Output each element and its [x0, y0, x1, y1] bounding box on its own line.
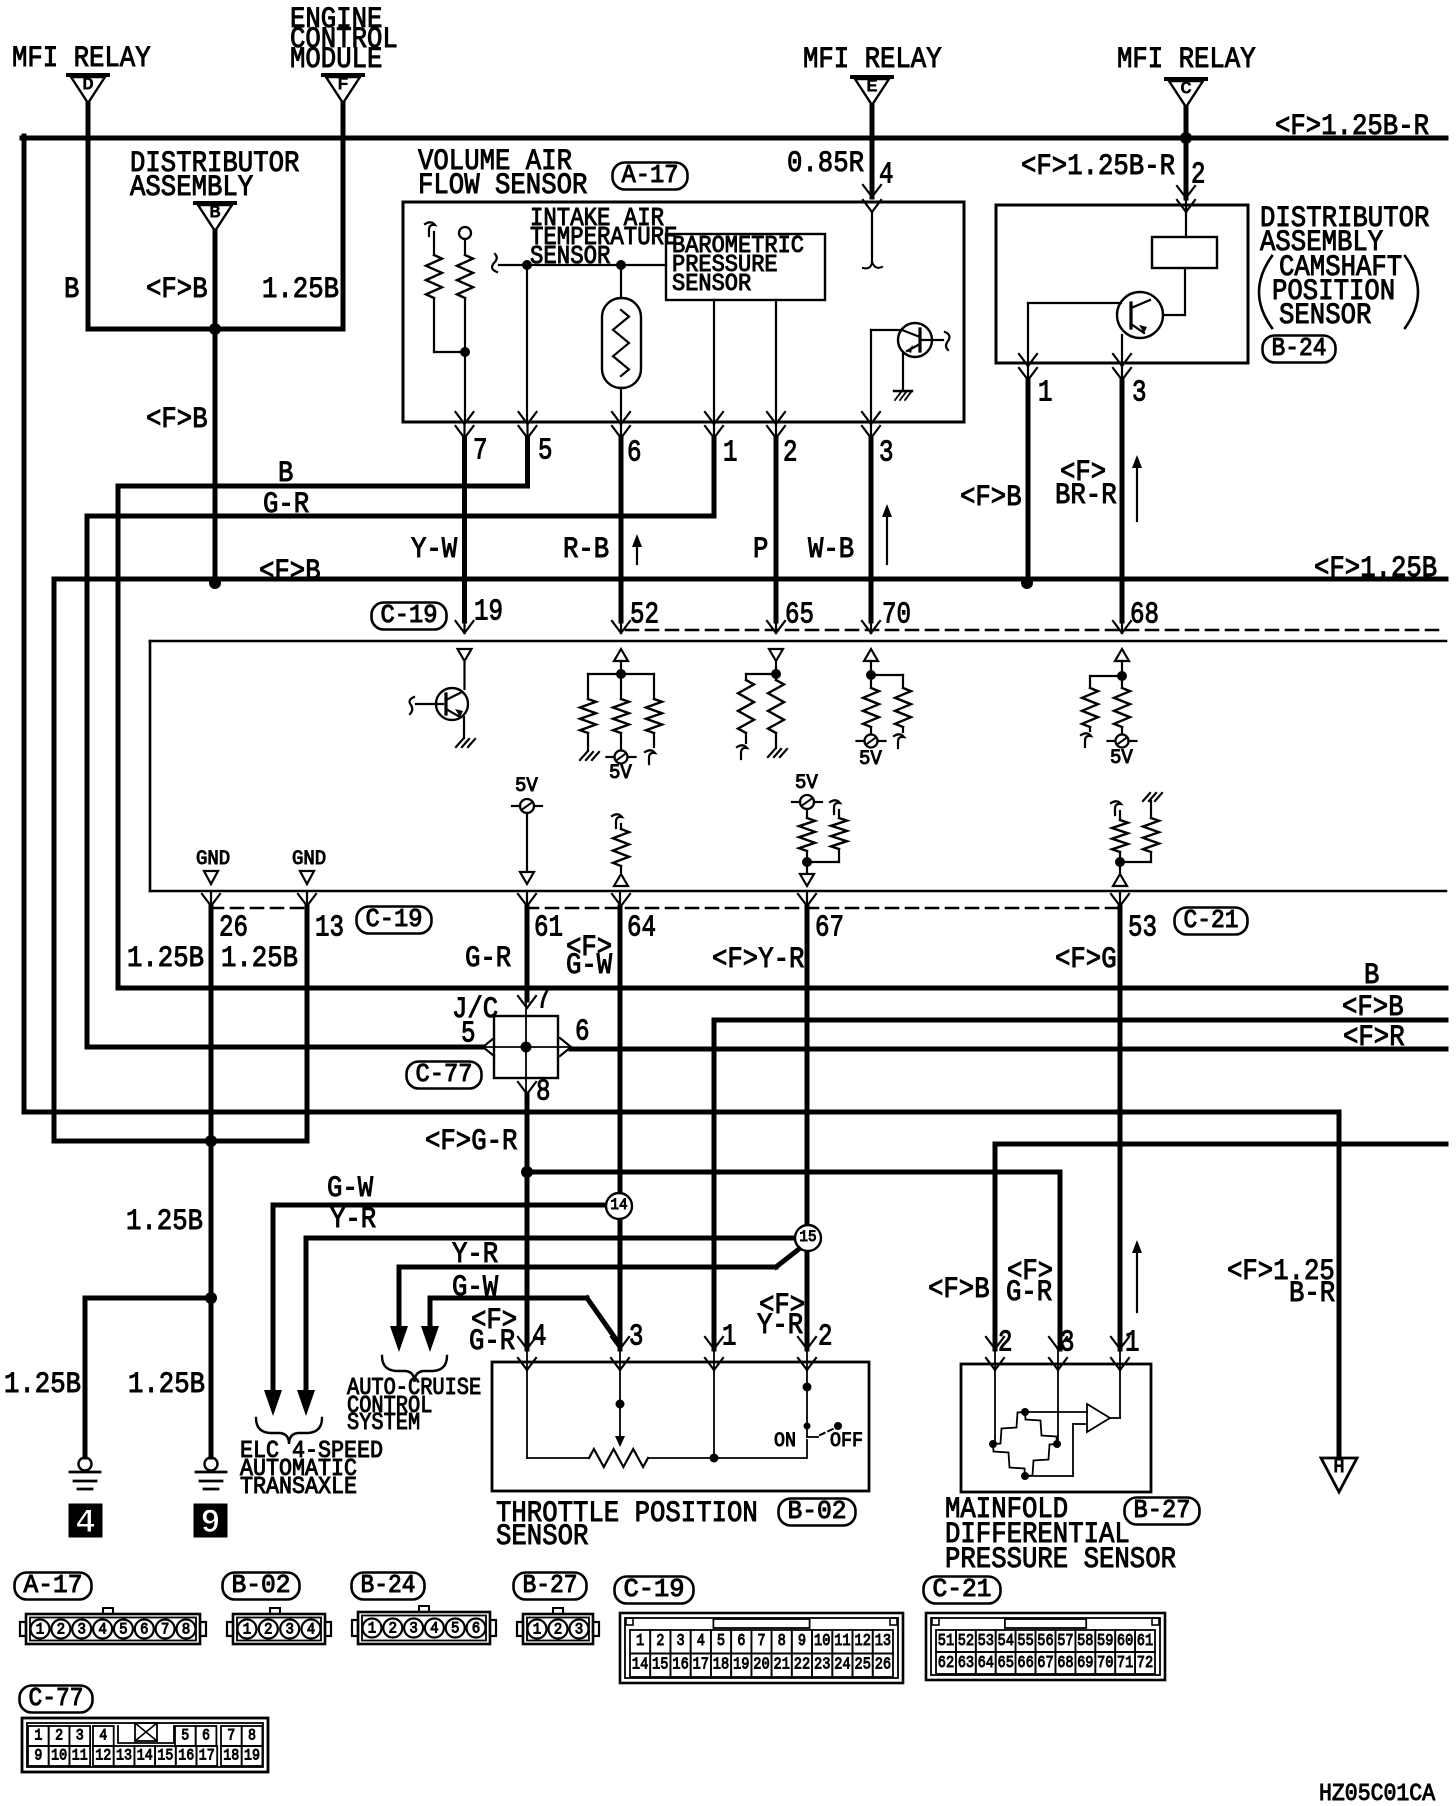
svg-text:3: 3 [77, 1621, 86, 1639]
svg-text:8: 8 [778, 1632, 786, 1651]
svg-text:C-19: C-19 [381, 600, 438, 630]
svg-text:G-R: G-R [263, 488, 309, 522]
svg-text:GND: GND [196, 848, 230, 871]
svg-text:Y-R: Y-R [330, 1203, 376, 1237]
svg-text:1: 1 [636, 1632, 644, 1651]
svg-text:B: B [210, 204, 221, 223]
svg-text:6: 6 [737, 1632, 745, 1651]
svg-text:5: 5 [538, 434, 553, 469]
svg-text:61: 61 [534, 911, 563, 946]
svg-text:C-21: C-21 [1184, 905, 1239, 935]
svg-text:1.25B: 1.25B [126, 1205, 203, 1239]
svg-text:8: 8 [248, 1727, 256, 1745]
svg-text:F: F [338, 76, 349, 95]
svg-text:MODULE: MODULE [290, 43, 382, 77]
svg-text:13: 13 [116, 1747, 132, 1765]
svg-text:9: 9 [201, 1505, 221, 1543]
svg-text:13: 13 [315, 911, 344, 946]
svg-text:2: 2 [554, 1621, 563, 1639]
svg-text:<F>B: <F>B [146, 273, 208, 307]
svg-text:<F>R: <F>R [1343, 1021, 1405, 1055]
svg-text:P: P [753, 533, 768, 567]
svg-text:C-77: C-77 [29, 1683, 84, 1713]
svg-text:<F>G: <F>G [1055, 943, 1117, 977]
svg-text:1: 1 [368, 1620, 377, 1638]
svg-text:1.25B: 1.25B [128, 1368, 205, 1402]
svg-text:60: 60 [1117, 1632, 1133, 1651]
svg-text:SENSOR: SENSOR [496, 1520, 588, 1554]
svg-text:16: 16 [672, 1656, 688, 1675]
svg-text:1: 1 [1038, 376, 1053, 411]
svg-text:64: 64 [978, 1654, 994, 1673]
svg-text:11: 11 [834, 1632, 850, 1651]
svg-text:C-77: C-77 [416, 1059, 473, 1089]
svg-text:G-R: G-R [1006, 1276, 1052, 1310]
svg-text:51: 51 [938, 1632, 954, 1651]
svg-text:2: 2 [264, 1621, 273, 1639]
svg-text:SENSOR: SENSOR [672, 271, 751, 298]
svg-text:G-W: G-W [566, 949, 612, 983]
svg-text:5: 5 [461, 1017, 476, 1052]
svg-text:Y-R: Y-R [452, 1238, 498, 1272]
svg-text:2: 2 [998, 1326, 1013, 1361]
svg-text:10: 10 [814, 1632, 830, 1651]
svg-text:3: 3 [409, 1620, 418, 1638]
svg-text:19: 19 [733, 1656, 749, 1675]
svg-text:<F>B: <F>B [960, 481, 1022, 515]
svg-text:62: 62 [938, 1654, 954, 1673]
svg-text:4: 4 [697, 1632, 705, 1651]
svg-text:Y-W: Y-W [411, 533, 457, 567]
svg-text:<F>B: <F>B [1342, 991, 1404, 1025]
svg-text:6: 6 [627, 436, 642, 471]
svg-text:3: 3 [677, 1632, 685, 1651]
svg-text:<F>1.25B-R: <F>1.25B-R [1275, 110, 1429, 144]
svg-text:9: 9 [798, 1632, 806, 1651]
svg-text:5V: 5V [795, 772, 818, 795]
svg-text:8: 8 [536, 1075, 551, 1110]
svg-text:7: 7 [227, 1727, 235, 1745]
svg-text:67: 67 [815, 911, 844, 946]
svg-text:7: 7 [757, 1632, 765, 1651]
svg-text:4: 4 [98, 1621, 107, 1639]
svg-text:2: 2 [55, 1727, 63, 1745]
svg-text:14: 14 [632, 1656, 648, 1675]
svg-text:MFI RELAY: MFI RELAY [803, 43, 942, 77]
svg-text:3: 3 [879, 436, 894, 471]
svg-text:70: 70 [1097, 1654, 1113, 1673]
svg-text:1: 1 [533, 1621, 542, 1639]
svg-text:B-27: B-27 [1134, 1495, 1191, 1525]
svg-text:2: 2 [57, 1621, 66, 1639]
svg-text:PRESSURE SENSOR: PRESSURE SENSOR [945, 1543, 1176, 1577]
svg-text:HZ05C01CA: HZ05C01CA [1319, 1781, 1436, 1806]
svg-text:C: C [1181, 80, 1192, 99]
svg-text:1.25B: 1.25B [4, 1368, 81, 1402]
svg-text:3: 3 [1132, 376, 1147, 411]
svg-text:23: 23 [814, 1656, 830, 1675]
svg-text:4: 4 [430, 1620, 439, 1638]
svg-text:21: 21 [774, 1656, 790, 1675]
svg-text:D: D [83, 76, 94, 95]
svg-text:3: 3 [629, 1320, 644, 1355]
svg-text:TRANSAXLE: TRANSAXLE [240, 1474, 357, 1501]
svg-text:63: 63 [958, 1654, 974, 1673]
svg-text:MFI RELAY: MFI RELAY [12, 42, 151, 76]
svg-text:2: 2 [783, 436, 798, 471]
svg-text:4: 4 [879, 158, 894, 193]
svg-text:53: 53 [978, 1632, 994, 1651]
svg-text:C-19: C-19 [366, 904, 423, 934]
svg-text:5V: 5V [609, 762, 632, 785]
svg-text:2: 2 [1191, 158, 1206, 193]
svg-text:4: 4 [532, 1320, 547, 1355]
svg-text:6: 6 [575, 1015, 590, 1050]
svg-text:56: 56 [1037, 1632, 1053, 1651]
svg-text:FLOW SENSOR: FLOW SENSOR [418, 169, 587, 203]
svg-text:1: 1 [36, 1621, 45, 1639]
svg-text:68: 68 [1130, 598, 1159, 633]
svg-text:5V: 5V [1110, 747, 1133, 770]
svg-text:52: 52 [630, 598, 659, 633]
svg-text:<F>1.25B-R: <F>1.25B-R [1021, 150, 1175, 184]
svg-text:B-24: B-24 [1272, 333, 1327, 363]
svg-text:19: 19 [474, 595, 503, 630]
svg-text:57: 57 [1057, 1632, 1073, 1651]
svg-text:12: 12 [855, 1632, 871, 1651]
svg-text:R-B: R-B [563, 533, 609, 567]
svg-text:2: 2 [656, 1632, 664, 1651]
svg-text:1.25B: 1.25B [221, 942, 298, 976]
svg-text:19: 19 [244, 1747, 260, 1765]
svg-text:<F>B: <F>B [259, 555, 321, 589]
svg-text:69: 69 [1077, 1654, 1093, 1673]
svg-text:C-21: C-21 [933, 1574, 992, 1604]
svg-text:15: 15 [799, 1228, 816, 1246]
svg-text:9: 9 [34, 1747, 42, 1765]
svg-text:5: 5 [181, 1727, 189, 1745]
svg-text:B: B [64, 273, 79, 307]
svg-text:66: 66 [1017, 1654, 1033, 1673]
svg-text:11: 11 [72, 1747, 88, 1765]
svg-text:B-27: B-27 [523, 1570, 578, 1600]
svg-text:B-24: B-24 [361, 1570, 416, 1600]
svg-text:1.25B: 1.25B [127, 942, 204, 976]
svg-text:53: 53 [1128, 911, 1157, 946]
svg-text:<F>1.25B: <F>1.25B [1314, 552, 1437, 586]
svg-text:54: 54 [998, 1632, 1014, 1651]
svg-text:0.85R: 0.85R [787, 147, 864, 181]
svg-text:68: 68 [1057, 1654, 1073, 1673]
svg-text:7: 7 [536, 983, 551, 1018]
svg-text:5V: 5V [859, 748, 882, 771]
svg-text:5: 5 [717, 1632, 725, 1651]
svg-text:5: 5 [451, 1620, 460, 1638]
svg-text:70: 70 [882, 598, 911, 633]
svg-text:18: 18 [223, 1747, 239, 1765]
svg-text:6: 6 [472, 1620, 481, 1638]
svg-text:SYSTEM: SYSTEM [347, 1410, 420, 1437]
svg-text:10: 10 [51, 1747, 67, 1765]
svg-text:17: 17 [693, 1656, 709, 1675]
svg-text:3: 3 [1060, 1326, 1075, 1361]
svg-text:ON: ON [774, 1430, 796, 1453]
svg-text:20: 20 [753, 1656, 769, 1675]
svg-text:24: 24 [834, 1656, 850, 1675]
svg-text:Y-R: Y-R [757, 1309, 803, 1343]
svg-text:26: 26 [875, 1656, 891, 1675]
svg-text:1: 1 [34, 1727, 42, 1745]
svg-text:18: 18 [713, 1656, 729, 1675]
svg-text:5: 5 [119, 1621, 128, 1639]
svg-text:G-W: G-W [327, 1172, 373, 1206]
svg-text:2: 2 [389, 1620, 398, 1638]
svg-text:2: 2 [818, 1320, 833, 1355]
svg-text:4: 4 [307, 1621, 316, 1639]
svg-text:OFF: OFF [830, 1430, 863, 1453]
svg-text:8: 8 [182, 1621, 191, 1639]
svg-text:7: 7 [473, 434, 488, 469]
svg-text:B: B [278, 457, 293, 491]
svg-text:65: 65 [998, 1654, 1014, 1673]
svg-text:<F>G-R: <F>G-R [425, 1125, 517, 1159]
svg-text:26: 26 [219, 911, 248, 946]
svg-text:G-R: G-R [469, 1325, 515, 1359]
svg-text:4: 4 [99, 1727, 107, 1745]
svg-text:H: H [1334, 1458, 1345, 1478]
svg-text:<F>Y-R: <F>Y-R [712, 943, 804, 977]
svg-text:E: E [867, 78, 878, 97]
svg-text:4: 4 [76, 1505, 96, 1543]
svg-text:59: 59 [1097, 1632, 1113, 1651]
svg-text:MFI RELAY: MFI RELAY [1117, 43, 1256, 77]
svg-text:25: 25 [855, 1656, 871, 1675]
svg-text:67: 67 [1037, 1654, 1053, 1673]
svg-text:SENSOR: SENSOR [1279, 299, 1371, 333]
svg-text:B-02: B-02 [788, 1496, 847, 1526]
svg-text:14: 14 [610, 1196, 627, 1214]
svg-text:BR-R: BR-R [1055, 479, 1117, 513]
svg-text:14: 14 [137, 1747, 153, 1765]
svg-text:W-B: W-B [808, 533, 854, 567]
svg-text:61: 61 [1137, 1632, 1153, 1651]
svg-text:ASSEMBLY: ASSEMBLY [130, 171, 253, 205]
svg-text:G-W: G-W [452, 1271, 498, 1305]
svg-text:SENSOR: SENSOR [530, 241, 610, 271]
svg-text:15: 15 [652, 1656, 668, 1675]
svg-text:A-17: A-17 [622, 160, 679, 190]
svg-text:G-R: G-R [465, 942, 511, 976]
svg-text:1: 1 [243, 1621, 252, 1639]
svg-text:6: 6 [140, 1621, 149, 1639]
svg-text:B-02: B-02 [232, 1570, 291, 1600]
svg-text:7: 7 [161, 1621, 170, 1639]
svg-text:3: 3 [575, 1621, 584, 1639]
svg-text:13: 13 [875, 1632, 891, 1651]
svg-text:52: 52 [958, 1632, 974, 1651]
svg-text:22: 22 [794, 1656, 810, 1675]
svg-text:55: 55 [1017, 1632, 1033, 1651]
svg-text:64: 64 [627, 911, 656, 946]
svg-text:6: 6 [202, 1727, 210, 1745]
svg-text:72: 72 [1137, 1654, 1153, 1673]
svg-text:1: 1 [1125, 1326, 1140, 1361]
svg-text:<F>B: <F>B [928, 1273, 990, 1307]
svg-text:65: 65 [785, 598, 814, 633]
svg-text:16: 16 [178, 1747, 194, 1765]
svg-text:15: 15 [157, 1747, 173, 1765]
svg-text:A-17: A-17 [24, 1570, 83, 1600]
svg-text:1.25B: 1.25B [262, 273, 339, 307]
svg-text:GND: GND [292, 848, 326, 871]
svg-text:5V: 5V [515, 775, 538, 798]
svg-text:71: 71 [1117, 1654, 1133, 1673]
svg-text:3: 3 [285, 1621, 294, 1639]
svg-text:1: 1 [723, 436, 738, 471]
svg-text:B-R: B-R [1289, 1277, 1335, 1311]
svg-text:58: 58 [1077, 1632, 1093, 1651]
svg-text:17: 17 [199, 1747, 215, 1765]
svg-text:C-19: C-19 [624, 1574, 685, 1604]
svg-text:12: 12 [95, 1747, 111, 1765]
svg-text:3: 3 [76, 1727, 84, 1745]
svg-text:<F>B: <F>B [146, 403, 208, 437]
